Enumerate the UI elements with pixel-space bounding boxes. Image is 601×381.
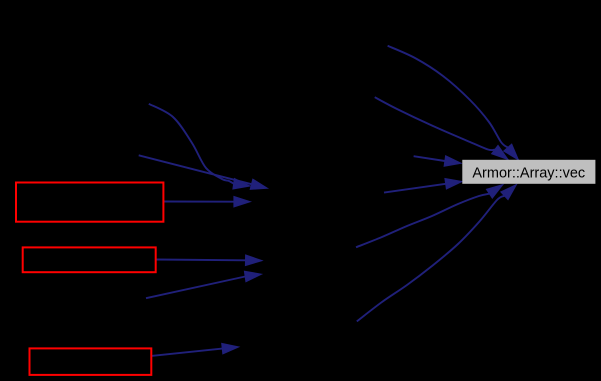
edge: middle node A to Armor::Array::vec — [356, 185, 503, 248]
edge: red box 2 to middle node B — [156, 255, 262, 266]
edge: top hidden caller 1 to Armor::Array::vec — [388, 46, 519, 160]
edge: hidden caller to middle node B (diagonal) — [146, 271, 262, 298]
node: red box 3 (truncated caller) — [30, 348, 152, 375]
edge: red box 3 to middle node C — [151, 343, 238, 356]
edge: hidden caller to middle node A (S-curve) — [149, 104, 250, 189]
edge: middle node to Armor::Array::vec (upper left) — [414, 156, 462, 167]
node: red box 1 (truncated caller) — [16, 183, 163, 222]
node: Armor::Array::vec (current node, grey) — [462, 160, 595, 184]
edge: middle node B to Armor::Array::vec — [357, 185, 517, 322]
edge: top hidden caller 2 to Armor::Array::vec — [375, 97, 508, 159]
edge: middle node to Armor::Array::vec (lower left) — [384, 179, 462, 193]
node: red box 2 (truncated caller) — [23, 247, 156, 272]
svg-text:Armor::Array::vec: Armor::Array::vec — [472, 166, 585, 182]
edge: red box 1 to middle node A — [163, 196, 250, 207]
edge: hidden caller to middle node A (diagonal) — [139, 155, 268, 189]
